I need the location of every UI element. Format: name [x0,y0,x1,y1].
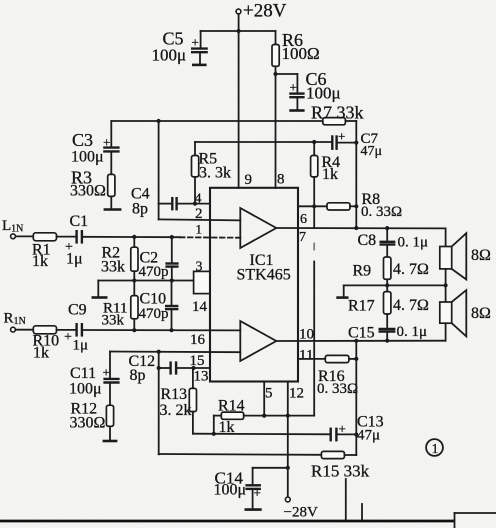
svg-text:47μ: 47μ [357,428,380,444]
svg-text:100μ: 100μ [306,84,341,103]
svg-text:1k: 1k [33,345,49,362]
svg-text:+: + [103,365,110,380]
svg-text:+: + [254,485,261,500]
svg-text:100Ω: 100Ω [282,44,320,63]
svg-text:470p: 470p [139,306,169,322]
svg-text:C9: C9 [68,302,87,319]
svg-text:1μ: 1μ [66,251,83,268]
svg-text:+: + [339,421,346,436]
svg-text:3. 2k: 3. 2k [160,402,192,419]
svg-text:1k: 1k [322,166,338,183]
svg-text:−28V: −28V [284,505,318,521]
svg-text:8Ω: 8Ω [471,247,491,264]
svg-text:7: 7 [299,230,306,245]
svg-text:C15: C15 [348,325,375,342]
svg-text:+: + [290,80,297,95]
svg-text:4. 7Ω: 4. 7Ω [393,297,429,314]
svg-text:+: + [338,129,345,144]
svg-text:100μ: 100μ [69,381,102,398]
svg-text:C3: C3 [72,130,93,150]
svg-text:330Ω: 330Ω [70,415,106,432]
svg-text:C10: C10 [140,291,167,308]
svg-text:8: 8 [277,172,285,188]
svg-text:0. 33Ω: 0. 33Ω [317,381,358,397]
svg-text:100μ: 100μ [71,149,104,166]
svg-text:15: 15 [190,353,205,369]
svg-text:33k: 33k [101,259,125,276]
svg-text:5: 5 [265,386,273,402]
svg-text:C8: C8 [358,232,377,249]
svg-text:C11: C11 [70,365,96,382]
svg-text:+: + [103,135,110,150]
svg-text:STK465: STK465 [237,267,291,284]
svg-text:100μ: 100μ [152,46,187,65]
svg-text:100μ: 100μ [214,482,247,499]
svg-text:R14: R14 [218,398,245,415]
svg-text:4. 7Ω: 4. 7Ω [393,261,429,278]
svg-text:13: 13 [194,369,209,385]
svg-text:3: 3 [196,260,203,275]
svg-text:+: + [192,35,199,50]
svg-text:8p: 8p [130,367,146,384]
svg-text:4: 4 [195,192,202,207]
svg-text:0. 1μ: 0. 1μ [397,324,428,340]
svg-text:R13: R13 [161,386,188,403]
svg-text:2: 2 [195,206,203,222]
svg-text:1k: 1k [32,253,48,270]
svg-text:470p: 470p [139,264,169,280]
svg-text:1: 1 [432,442,439,457]
svg-text:+28V: +28V [243,1,287,22]
svg-text:R15 33k: R15 33k [311,462,370,481]
svg-text:6: 6 [300,212,307,227]
svg-text:8Ω: 8Ω [471,305,491,322]
svg-text:3. 3k: 3. 3k [199,165,231,182]
svg-text:1μ: 1μ [73,338,89,354]
svg-text:R9: R9 [353,263,372,280]
svg-text:1k: 1k [219,419,235,436]
svg-text:11: 11 [299,348,313,364]
svg-text:9: 9 [245,172,253,188]
svg-text:R17: R17 [348,298,375,315]
svg-text:47μ: 47μ [361,144,383,159]
svg-text:+: + [64,330,72,345]
svg-text:1: 1 [196,222,203,237]
svg-text:12: 12 [289,386,304,402]
svg-text:0. 33Ω: 0. 33Ω [361,204,402,220]
svg-text:16: 16 [190,332,206,348]
svg-text:14: 14 [192,299,208,315]
svg-text:330Ω: 330Ω [70,183,106,200]
svg-text:8p: 8p [132,201,148,218]
svg-text:R7 33k: R7 33k [311,103,364,123]
svg-text:C1: C1 [70,213,89,230]
svg-text:33k: 33k [102,313,125,329]
svg-text:0. 1μ: 0. 1μ [398,235,429,251]
